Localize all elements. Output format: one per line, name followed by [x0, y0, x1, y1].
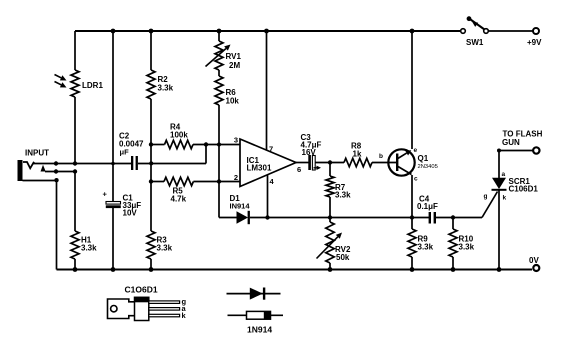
svg-text:e: e	[414, 147, 418, 154]
svg-text:3.3k: 3.3k	[418, 243, 434, 252]
svg-text:3: 3	[234, 136, 238, 145]
svg-text:10V: 10V	[123, 209, 138, 218]
svg-text:10k: 10k	[226, 97, 240, 106]
svg-text:a: a	[502, 171, 506, 178]
svg-text:7: 7	[269, 145, 273, 154]
svg-text:LDR1: LDR1	[82, 81, 103, 90]
svg-text:6: 6	[297, 165, 301, 174]
svg-text:g: g	[484, 193, 488, 200]
svg-text:C1O6D1: C1O6D1	[125, 285, 158, 295]
svg-text:4.7k: 4.7k	[171, 195, 187, 204]
svg-text:50k: 50k	[336, 253, 350, 262]
svg-text:16V: 16V	[302, 148, 317, 157]
svg-text:0.1μF: 0.1μF	[417, 202, 438, 211]
svg-text:3.3k: 3.3k	[81, 244, 97, 253]
svg-text:2M: 2M	[229, 61, 240, 70]
svg-text:IN914: IN914	[230, 202, 251, 211]
svg-text:1k: 1k	[353, 150, 362, 159]
svg-text:c: c	[414, 176, 418, 183]
svg-text:+: +	[103, 190, 108, 199]
svg-text:SW1: SW1	[466, 38, 484, 47]
svg-text:3.3k: 3.3k	[459, 243, 475, 252]
svg-text:μF: μF	[120, 148, 130, 157]
svg-text:RV1: RV1	[226, 52, 242, 61]
svg-text:GUN: GUN	[502, 138, 520, 147]
svg-text:k: k	[503, 195, 507, 202]
svg-text:3.3k: 3.3k	[335, 191, 351, 200]
svg-text:1N914: 1N914	[247, 325, 272, 335]
svg-text:3.3k: 3.3k	[157, 244, 173, 253]
svg-text:2: 2	[234, 173, 238, 182]
svg-text:100k: 100k	[170, 131, 188, 140]
svg-text:+9V: +9V	[527, 38, 542, 47]
svg-text:C106D1: C106D1	[509, 185, 539, 194]
svg-text:2N3405: 2N3405	[418, 164, 438, 170]
svg-text:INPUT: INPUT	[25, 149, 49, 158]
svg-text:Q1: Q1	[418, 154, 429, 163]
svg-text:3.3k: 3.3k	[158, 84, 174, 93]
svg-text:b: b	[379, 153, 383, 160]
svg-text:0V: 0V	[529, 256, 539, 265]
svg-text:LM301: LM301	[247, 164, 272, 173]
